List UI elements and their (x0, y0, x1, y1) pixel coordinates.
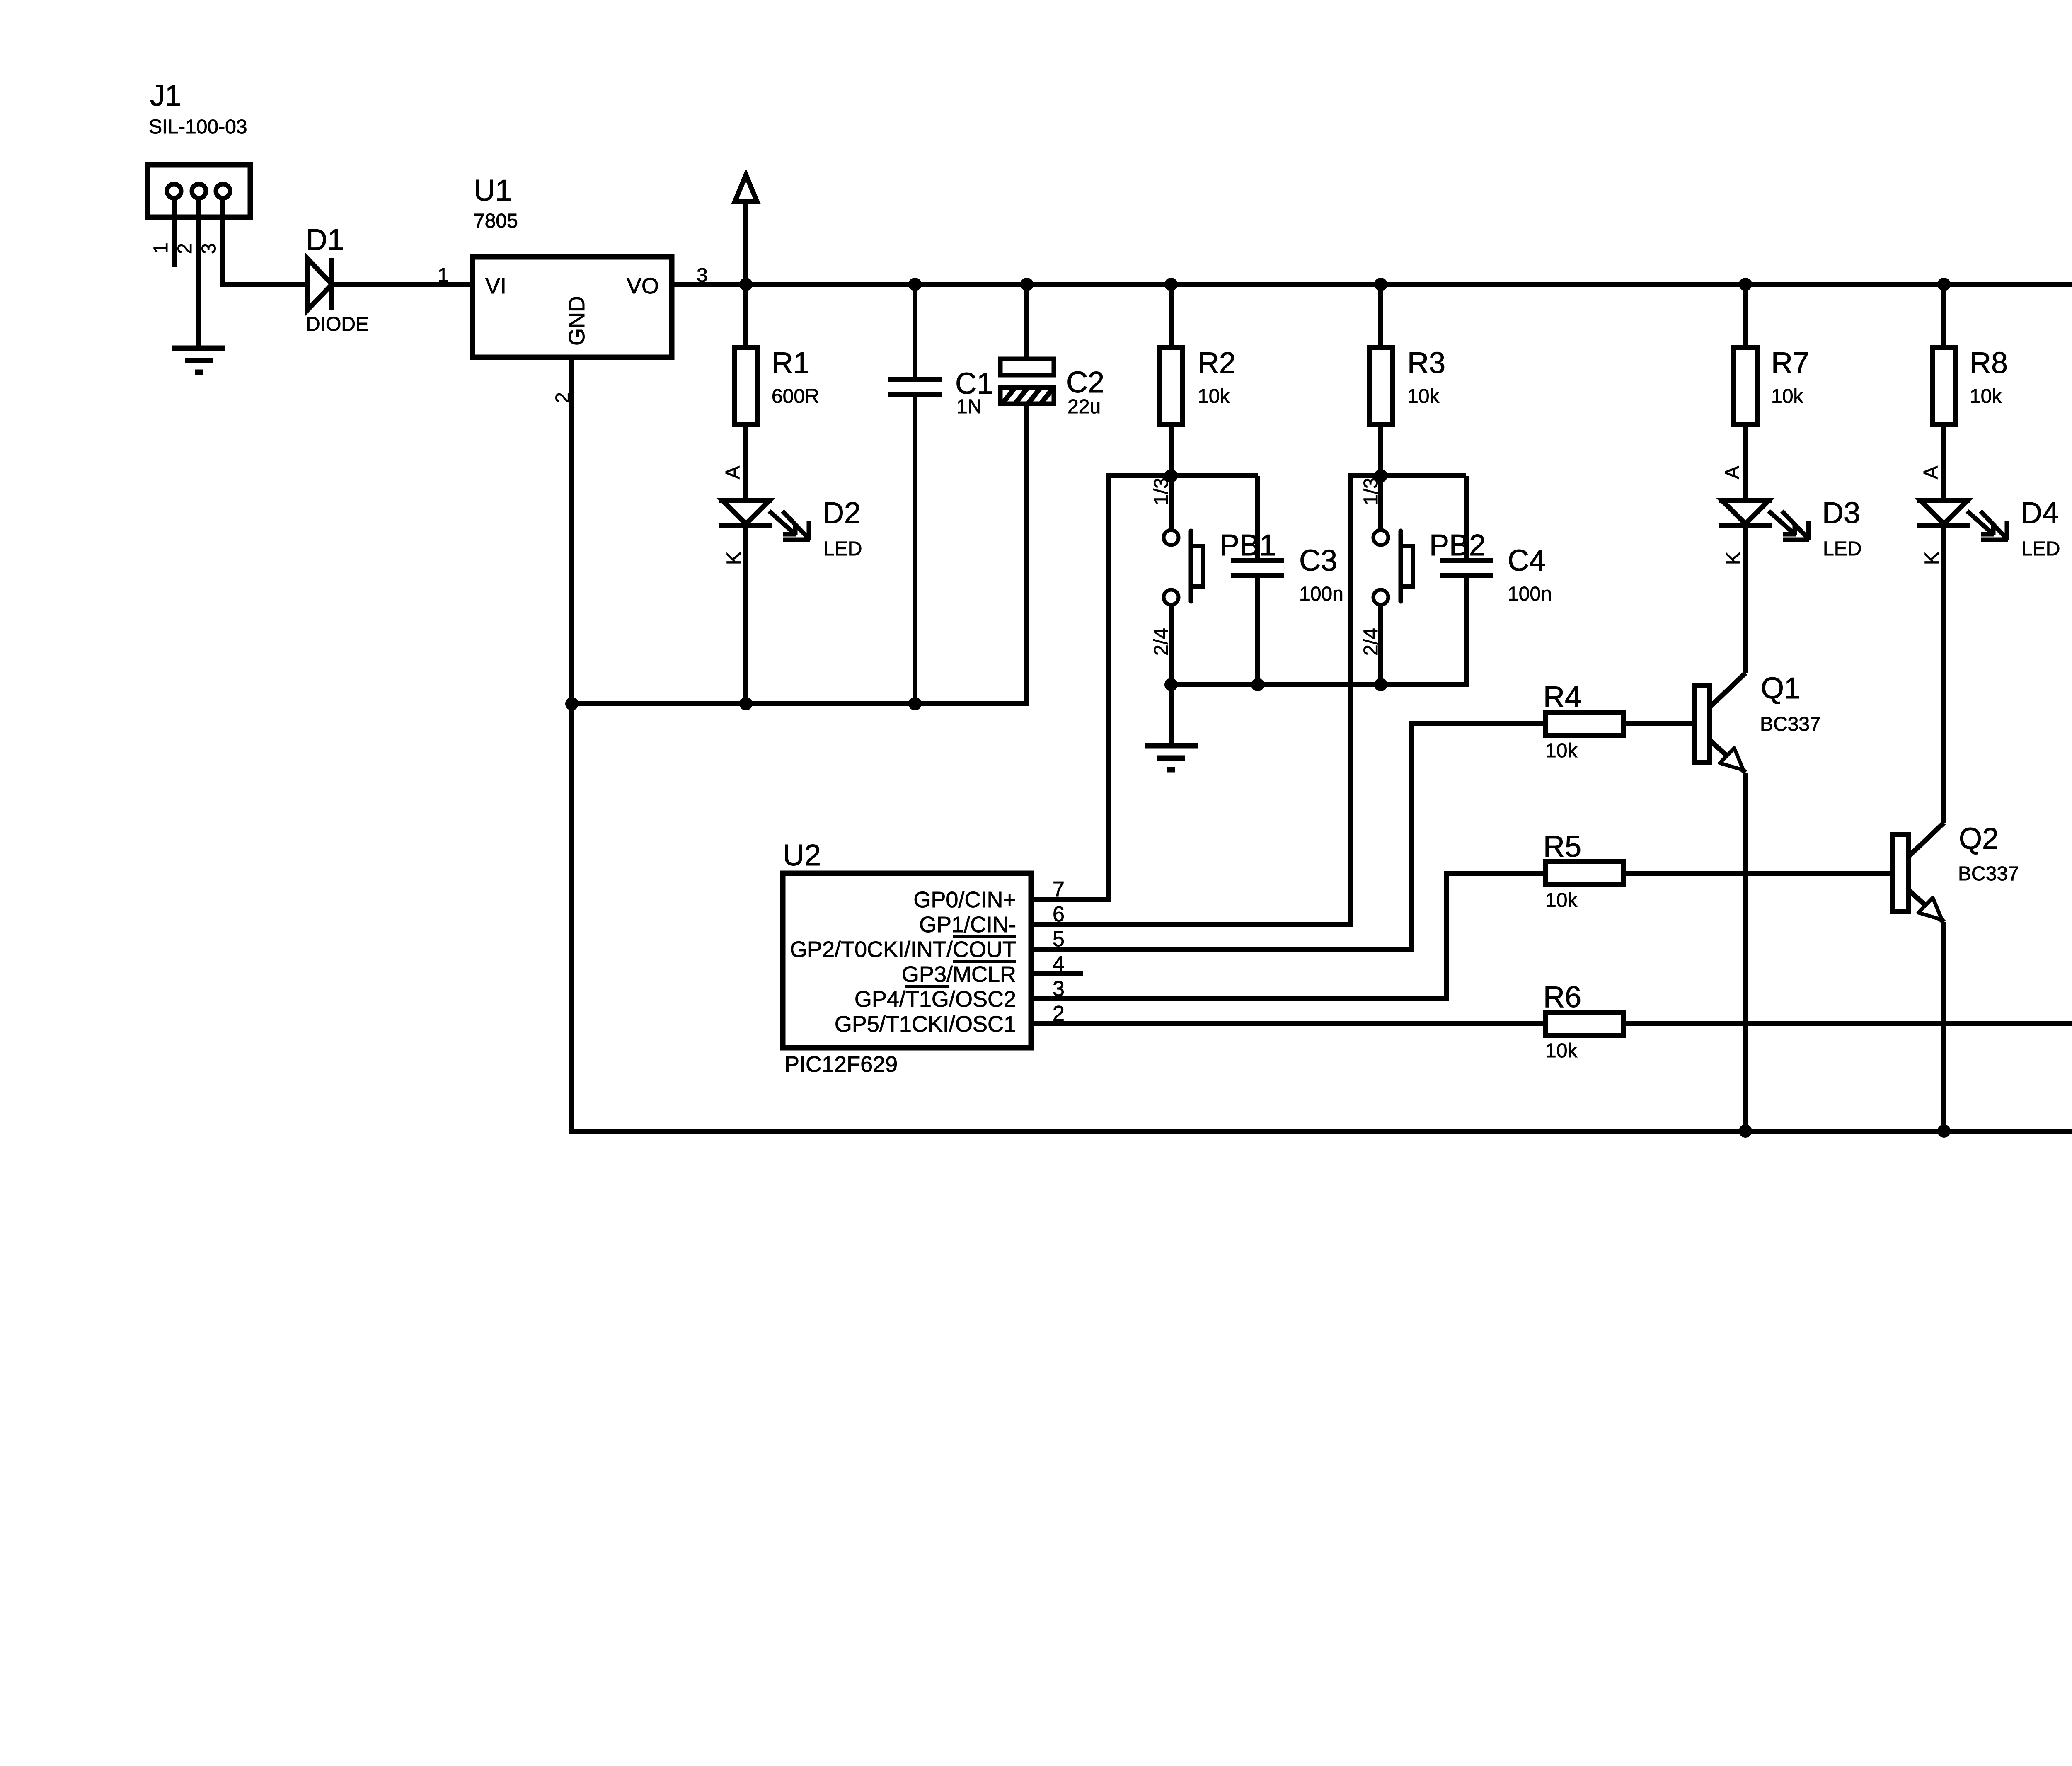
svg-text:7805: 7805 (474, 210, 518, 232)
wire D3 cathode to Q1 collector (1743, 526, 1748, 673)
junction low bus / PB2 (1374, 678, 1387, 691)
svg-text:BC337: BC337 (1760, 713, 1821, 735)
svg-text:PIC12F629: PIC12F629 (784, 1052, 898, 1077)
wire U2 pin 2 row (1031, 1021, 1545, 1026)
wire R3 to PB2 bus (1378, 424, 1383, 476)
svg-text:A: A (722, 466, 744, 479)
wire J1 pin 3 down (220, 198, 225, 287)
svg-text:1: 1 (150, 242, 172, 254)
regulator U1 box (472, 257, 672, 357)
svg-text:K: K (1723, 552, 1745, 565)
wire riser to R5 (1444, 871, 1545, 876)
svg-text:VO: VO (627, 274, 659, 298)
wire riser to R4 (1409, 721, 1545, 726)
wire pin3 riser (1444, 871, 1449, 1001)
J1 pad circle 2 (192, 184, 206, 198)
wire low bus to ground (1169, 685, 1174, 746)
overline MCLR (953, 960, 1016, 963)
D1 cathode bar (329, 258, 334, 310)
LED D4 (1917, 500, 2008, 540)
wire rail to R3 (1378, 284, 1383, 347)
svg-text:Q2: Q2 (1959, 822, 1999, 855)
ground symbol under PB1 (1145, 746, 1198, 770)
svg-text:GP1/CIN-: GP1/CIN- (919, 912, 1016, 937)
junction bottom rail / Q2 emitter (1937, 1124, 1951, 1138)
wire PB2 bottom contact to low bus (1378, 606, 1383, 685)
capacitor C2 negative plate (hatched) (1000, 384, 1069, 407)
junction PB1 bus / R2 (1164, 469, 1178, 482)
junction mid rail / D2 (739, 697, 753, 710)
wire rail to R1 (743, 284, 748, 347)
junction rail / R7 (1739, 278, 1752, 291)
svg-text:3: 3 (198, 243, 220, 254)
svg-text:R1: R1 (772, 346, 810, 380)
svg-text:PB1: PB1 (1220, 529, 1276, 562)
svg-text:D4: D4 (2021, 497, 2059, 530)
capacitor C1 (888, 380, 942, 395)
wire U2 pin 7 stub (1031, 897, 1111, 902)
junction rail / R8 (1937, 278, 1951, 291)
pushbutton PB1 (1164, 530, 1203, 605)
wire +5V top rail from U1 VO (672, 282, 2072, 287)
svg-text:1N: 1N (956, 396, 982, 418)
resistor R4 (1545, 712, 1623, 735)
junction rail / R1 / power arrow (739, 278, 753, 291)
svg-text:K: K (1921, 552, 1943, 565)
power supply arrow symbol (735, 175, 757, 202)
wire D1 cathode to U1 VI (332, 282, 472, 287)
resistor R8 (1932, 347, 1956, 424)
resistor R2 (1159, 347, 1183, 424)
wire Q1 emitter down (1743, 773, 1748, 1131)
J1 pad circle 1 (167, 184, 181, 198)
svg-text:R4: R4 (1543, 681, 1581, 714)
svg-text:Q1: Q1 (1761, 672, 1801, 705)
wire pin5 riser (1409, 721, 1414, 952)
svg-text:R3: R3 (1407, 346, 1445, 380)
wire R8 to D4 anode (1941, 424, 1946, 500)
svg-text:GP3/MCLR: GP3/MCLR (902, 962, 1016, 987)
svg-text:DIODE: DIODE (306, 313, 369, 335)
overline COUT (953, 935, 1016, 938)
wire bus to PB2 top contact (1378, 476, 1383, 529)
svg-text:D1: D1 (306, 223, 344, 257)
wire U1 GND down to bottom rail (569, 357, 574, 1134)
wire power arrow to rail (743, 202, 748, 284)
wire rail to C2 (1024, 284, 1029, 359)
capacitor C2 positive plate (1000, 359, 1054, 375)
wire bus to PB1 top contact (1169, 476, 1174, 529)
wire R7 to D3 anode (1743, 424, 1748, 500)
diode D1 (307, 258, 332, 310)
wire R2 to PB1 bus (1169, 424, 1174, 476)
wire U2 pin 6 stub (1031, 922, 1353, 927)
svg-text:2: 2 (174, 243, 196, 254)
wire R5 to Q2 base (1623, 871, 1893, 876)
wire R4 to Q1 base (1623, 721, 1694, 726)
wire rail to R8 (1941, 284, 1946, 347)
svg-text:10k: 10k (1970, 385, 2002, 407)
svg-text:100n: 100n (1299, 583, 1343, 605)
LED D2 (719, 500, 810, 540)
wire U2 pin 3 row (1031, 996, 1449, 1001)
svg-text:600R: 600R (772, 385, 819, 407)
transistor Q2 (1893, 823, 1944, 922)
wire C1 to mid rail (913, 395, 917, 704)
LED D3 (1719, 500, 1809, 540)
J1 pad circle 3 (216, 184, 230, 198)
wire rail to R7 (1743, 284, 1748, 347)
svg-text:GP5/T1CKI/OSC1: GP5/T1CKI/OSC1 (835, 1012, 1016, 1037)
svg-text:GND: GND (564, 296, 589, 346)
svg-text:SIL-100-03: SIL-100-03 (149, 116, 247, 138)
ground symbol at J1 pin 2 (172, 348, 225, 372)
wire C2 to mid rail corner (1024, 404, 1029, 706)
pushbutton PB2 (1373, 530, 1413, 605)
wire R1 to D2 anode (743, 424, 748, 500)
svg-text:J1: J1 (150, 79, 182, 112)
wire PB2 top bus (1348, 473, 1466, 478)
svg-text:GP4/T1G/OSC2: GP4/T1G/OSC2 (854, 987, 1016, 1012)
svg-text:100n: 100n (1508, 583, 1552, 605)
svg-text:A: A (1721, 466, 1743, 479)
svg-text:PB2: PB2 (1429, 529, 1486, 562)
wire U2 pin 5 row (1031, 947, 1414, 952)
svg-text:C4: C4 (1508, 544, 1546, 577)
connector J1 box (148, 165, 250, 217)
junction rail / R3 (1374, 278, 1387, 291)
wire C3 to low bus (1255, 575, 1260, 685)
svg-text:C3: C3 (1299, 544, 1337, 577)
wire D4 cathode to Q2 collector (1941, 526, 1946, 823)
svg-text:10k: 10k (1771, 385, 1803, 407)
svg-text:6: 6 (1053, 902, 1065, 926)
wire rail to R2 (1169, 284, 1174, 347)
wire PB2 bus down to U2 pin 6 (1348, 473, 1353, 927)
wire J1 pin3 to D1 anode (220, 282, 307, 287)
wire C4 to low bus corner (1464, 575, 1469, 687)
resistor R6 (1545, 1012, 1623, 1035)
svg-text:LED: LED (1823, 538, 1861, 560)
svg-text:K: K (723, 552, 745, 565)
wire mid ground rail (572, 701, 1029, 706)
wire bus to C4 (1464, 476, 1469, 560)
svg-text:BC337: BC337 (1958, 863, 2019, 885)
transistor Q1 (1694, 673, 1745, 773)
svg-text:2/4: 2/4 (1360, 628, 1382, 656)
svg-text:R8: R8 (1970, 346, 2008, 380)
junction rail / R2 (1164, 278, 1178, 291)
wire bottom ground rail (569, 1129, 2072, 1134)
junction bottom rail / Q1 emitter (1739, 1124, 1752, 1138)
junction low bus / C3 (1251, 678, 1264, 691)
wire Q2 emitter down (1941, 922, 1946, 1131)
svg-text:10k: 10k (1545, 740, 1578, 762)
svg-text:R2: R2 (1198, 346, 1236, 380)
svg-text:R7: R7 (1771, 346, 1809, 380)
svg-text:U2: U2 (783, 839, 821, 872)
capacitor C4 (1440, 560, 1493, 575)
svg-text:LED: LED (823, 538, 862, 560)
wire D2 cathode to mid rail (743, 526, 748, 704)
svg-text:GP0/CIN+: GP0/CIN+ (913, 887, 1016, 912)
svg-text:A: A (1920, 466, 1942, 479)
svg-text:D2: D2 (823, 497, 861, 530)
junction mid rail / C1 (908, 697, 922, 710)
wire rail to C1 (913, 284, 917, 380)
svg-text:C1: C1 (955, 367, 993, 400)
svg-text:U1: U1 (474, 174, 512, 207)
wire R6 to Q3 base (1623, 1021, 2072, 1026)
svg-text:D3: D3 (1822, 497, 1860, 530)
wire PB1 bottom contact to low bus (1169, 606, 1174, 685)
wire U2 pin 4 stub (MCLR n.c.) (1031, 971, 1083, 976)
junction mid rail / U1 GND line (565, 697, 579, 710)
resistor R5 (1545, 862, 1623, 885)
svg-text:GP2/T0CKI/INT/COUT: GP2/T0CKI/INT/COUT (790, 937, 1016, 962)
wire J1 pin 2 to ground (196, 198, 201, 348)
svg-text:R5: R5 (1543, 830, 1581, 863)
junction low bus / PB1 / ground (1164, 678, 1178, 691)
junction PB2 bus / R3 (1374, 469, 1387, 482)
resistor R7 (1734, 347, 1757, 424)
svg-text:2/4: 2/4 (1150, 628, 1172, 656)
wire PB1 top bus (1106, 473, 1258, 478)
svg-text:10k: 10k (1198, 385, 1230, 407)
resistor R1 (734, 347, 758, 424)
wire PB low bus (1171, 682, 1469, 687)
svg-text:VI: VI (485, 274, 506, 298)
svg-text:1: 1 (438, 264, 449, 286)
junction rail / C2 (1020, 278, 1034, 291)
overline T1G (905, 985, 949, 988)
resistor R3 (1369, 347, 1392, 424)
svg-text:R6: R6 (1543, 981, 1581, 1014)
wire bus to C3 (1255, 476, 1260, 560)
svg-text:10k: 10k (1407, 385, 1440, 407)
IC U2 box (783, 873, 1031, 1048)
svg-text:22u: 22u (1067, 396, 1101, 418)
wire PB1 bus down to U2 pin 7 (1106, 473, 1111, 902)
junction rail / C1 (908, 278, 922, 291)
svg-text:7: 7 (1053, 877, 1065, 901)
svg-text:10k: 10k (1545, 889, 1578, 911)
svg-text:10k: 10k (1545, 1040, 1578, 1062)
wire J1 pin 1 stub (172, 198, 177, 267)
svg-text:C2: C2 (1066, 366, 1104, 399)
capacitor C3 (1231, 560, 1284, 575)
svg-text:LED: LED (2021, 538, 2060, 560)
